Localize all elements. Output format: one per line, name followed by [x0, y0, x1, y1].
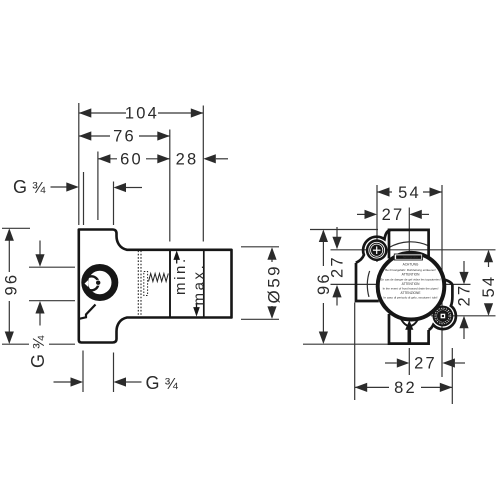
ext dia top: [241, 246, 279, 248]
hansgrohe label plate: [394, 254, 422, 260]
dim 60: [98, 158, 117, 160]
svg-text:96: 96: [3, 273, 21, 296]
knob center dot: [95, 280, 101, 286]
funnel thin circle left crescent: [367, 271, 369, 297]
bottom-right boss outline: [429, 280, 456, 330]
svg-text:104: 104: [125, 105, 159, 123]
funnel V drain: [401, 318, 419, 326]
svg-text:27: 27: [414, 355, 437, 373]
svg-text:60: 60: [120, 150, 143, 168]
knob lever notch: [83, 279, 88, 288]
svg-text:54: 54: [398, 184, 421, 202]
svg-text:min.: min.: [172, 256, 189, 295]
dim 54 top: [377, 191, 392, 193]
ext center vertical bottom: [408, 348, 410, 375]
dashed thread line b: [140, 251, 142, 317]
big circle: [378, 253, 445, 320]
dim dia59: [271, 249, 273, 262]
dim 96 right drawing: [322, 231, 324, 266]
svg-text:28: 28: [176, 150, 199, 168]
ext 82 left: [354, 303, 356, 401]
top-left screw ring: [366, 239, 388, 261]
depth arrow: [114, 183, 127, 192]
dim 27 right rotated: [463, 261, 465, 273]
max arrow: [193, 307, 200, 317]
warning text: [380, 262, 440, 299]
svg-text:ACHTUNG: ACHTUNG: [403, 262, 419, 266]
ext dia bottom: [241, 318, 279, 320]
ext line 104 right: [202, 106, 204, 242]
bottom-right screw: [433, 306, 454, 327]
ext center line screws bottom: [431, 315, 496, 317]
ext line 60 left: [97, 152, 99, 221]
dim 82 bottom: [355, 386, 389, 388]
svg-text:In the event of frost hazard d: In the event of frost hazard drain the p…: [383, 287, 439, 291]
bottom arrow right: [54, 381, 72, 383]
chamfer notch below knob: [79, 305, 95, 319]
ext screw BR vertical: [441, 185, 443, 377]
top-left boss outline: [356, 230, 391, 263]
port dim arrow down: [39, 241, 41, 259]
svg-text:54: 54: [480, 275, 498, 298]
left mid edge: [356, 263, 379, 301]
ext 96 top: [310, 229, 378, 231]
ext 96 bottom: [2, 343, 29, 345]
ext line 76 right: [169, 130, 171, 242]
funnel thin circle top arc: [389, 242, 429, 248]
dim 27 top: [357, 213, 365, 215]
svg-text:27: 27: [456, 284, 474, 307]
knob ring: [85, 267, 115, 297]
svg-text:ATTENZIONE: ATTENZIONE: [401, 291, 421, 295]
upper square: [389, 230, 429, 259]
ext center line screws top: [331, 249, 496, 251]
ext port bottom b: [113, 353, 115, 393]
ext center vertical top: [408, 208, 410, 254]
ext tick: [113, 182, 115, 226]
svg-text:hansgrohe: hansgrohe: [403, 255, 419, 259]
ext bottom hidden edge: [303, 343, 389, 345]
svg-text:G ¾: G ¾: [146, 373, 179, 393]
dim 27 left rotated: [336, 227, 338, 238]
svg-text:82: 82: [394, 379, 417, 397]
dim 27 bottom: [385, 362, 397, 364]
knob spindle small circle: [85, 276, 99, 290]
ext screw TL vertical: [376, 185, 378, 262]
svg-text:ATTENTION: ATTENTION: [402, 282, 421, 286]
svg-text:Bei Frostgefahr: Rohrleitung e: Bei Frostgefahr: Rohrleitung entleeren!: [385, 268, 436, 272]
svg-text:In caso di pericolo di gelo, s: In caso di pericolo di gelo, svuotare i …: [384, 296, 438, 300]
bottom arrow left: [114, 377, 127, 386]
interior line min boundary: [169, 249, 171, 318]
dashed spindle head: [144, 272, 148, 296]
min arrow: [173, 250, 180, 260]
ext line left edge: [78, 103, 80, 225]
svg-text:En cas de danger de gel videz: En cas de danger de gel videz les tuyaut…: [380, 277, 440, 281]
lower square: [389, 314, 429, 344]
G3/4 top arrow: [51, 186, 68, 188]
ext port bottom a: [82, 351, 84, 393]
ext 96 top: [2, 227, 30, 229]
ext 82 right: [451, 348, 453, 404]
valve body side-view outline: [79, 230, 232, 343]
svg-text:27: 27: [329, 255, 347, 278]
dim 76: [79, 135, 110, 137]
dim 104: [79, 112, 126, 114]
ext port top: [29, 266, 75, 268]
svg-text:27: 27: [382, 206, 405, 224]
ext center line mid: [331, 283, 378, 285]
svg-text:G ¾: G ¾: [13, 177, 46, 197]
dim 54 right rotated: [488, 251, 490, 267]
drain arrow: [405, 320, 413, 330]
svg-text:Ø59: Ø59: [265, 264, 284, 304]
spindle thread zigzag: [149, 274, 169, 282]
svg-text:max.: max.: [191, 263, 208, 306]
dim 96 left: [8, 230, 10, 272]
dashed thread line a: [137, 251, 139, 317]
svg-text:G ¾: G ¾: [28, 335, 48, 368]
svg-text:76: 76: [113, 128, 136, 146]
interior line max boundary: [203, 249, 205, 318]
ext port bottom: [29, 300, 75, 302]
port dim arrow up: [39, 310, 41, 326]
top-left screw cross: [373, 249, 381, 251]
ext line thread: [83, 172, 85, 225]
svg-text:ATTENTION: ATTENTION: [402, 273, 421, 277]
